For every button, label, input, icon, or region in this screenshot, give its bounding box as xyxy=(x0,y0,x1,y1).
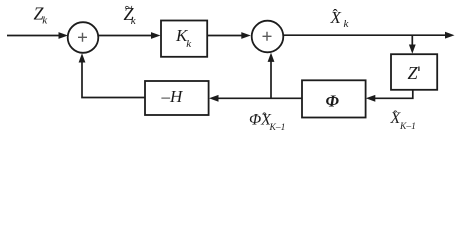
wire: S1 to K block xyxy=(98,32,160,39)
block Z^-1 (unit delay) xyxy=(391,54,437,90)
wire: branch up from Phi output into S2 bottom xyxy=(268,53,275,99)
label Z_k xyxy=(34,3,49,26)
summing junction S1 xyxy=(68,22,99,53)
wire: Phi output left into -H block xyxy=(209,95,302,102)
plus sign in S1 xyxy=(78,33,87,42)
block K_k xyxy=(161,21,207,57)
svg-text:Z: Z xyxy=(408,63,419,83)
label Z~_k (Z tilde sub k) xyxy=(124,1,137,28)
block -H xyxy=(145,81,209,115)
svg-text:K–1: K–1 xyxy=(269,123,286,133)
wire: S2 to output arrow xyxy=(283,32,454,39)
wire: input Z_k into summer S1 xyxy=(7,32,68,39)
svg-text:ˆ: ˆ xyxy=(262,111,267,126)
plus sign in S2 xyxy=(263,32,272,41)
label Z^1 in block xyxy=(408,63,419,83)
svg-text:–H: –H xyxy=(161,87,185,106)
label X^_{K-1} below Z block xyxy=(390,109,416,132)
svg-text:K–1: K–1 xyxy=(399,122,416,132)
label X^_k (X hat sub k) xyxy=(330,7,350,30)
summing junction S2 xyxy=(252,21,284,53)
label K_k in block xyxy=(175,26,192,50)
svg-text:Φ: Φ xyxy=(326,92,340,111)
svg-text:~: ~ xyxy=(125,1,133,17)
svg-text:ˆ: ˆ xyxy=(333,7,339,24)
label Phi X^_{K-1} below feedback line xyxy=(249,111,285,133)
wire: Z block down and left into Phi block xyxy=(366,90,413,102)
svg-text:ˆ: ˆ xyxy=(393,109,398,124)
wire: -H output left then up into S1 bottom xyxy=(79,53,145,97)
wire: branch down from output line to Z block xyxy=(409,35,416,54)
block Phi xyxy=(302,80,366,117)
wire: K block to summer S2 xyxy=(207,32,251,39)
